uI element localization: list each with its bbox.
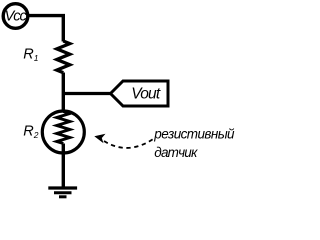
svg-text:резистивный: резистивный xyxy=(153,127,235,142)
wire node to Vout flag xyxy=(63,92,111,95)
power symbol Vcc xyxy=(3,4,28,29)
svg-text:датчик: датчик xyxy=(154,145,198,160)
svg-text:R1: R1 xyxy=(23,46,38,62)
svg-text:R2: R2 xyxy=(23,123,38,139)
resistor R1 xyxy=(57,41,70,73)
net label Vout xyxy=(111,81,169,106)
annotation arrow xyxy=(94,134,154,148)
resistor R2 (resistive sensor) xyxy=(42,111,84,153)
ground xyxy=(48,188,77,197)
wire R1 to node xyxy=(62,73,65,112)
svg-text:Vcc: Vcc xyxy=(5,8,28,24)
wire R2 to ground xyxy=(62,144,65,189)
annotation text: резистивный датчик xyxy=(153,127,235,160)
wire Vcc to R1 xyxy=(29,16,64,42)
svg-text:Vout: Vout xyxy=(131,85,161,102)
